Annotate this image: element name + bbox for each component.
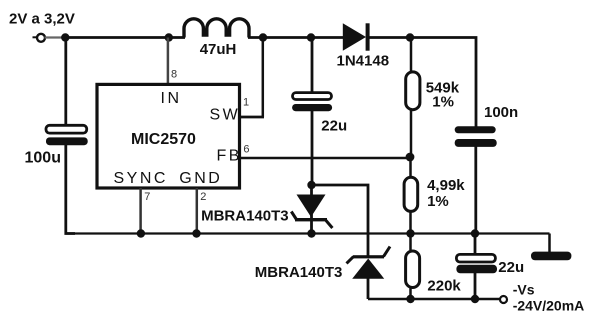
svg-text:1: 1 [243,97,249,109]
wire: inductor to diode [248,36,344,39]
node: D2 ground junction [307,229,315,237]
svg-text:MIC2570: MIC2570 [131,131,196,148]
resistor R3 220k [406,251,420,288]
svg-text:47uH: 47uH [200,41,237,58]
svg-text:22u: 22u [321,118,347,135]
node: input junction [61,33,69,41]
svg-text:FB: FB [217,148,242,165]
node: C2 top junction [307,33,315,41]
wire: R1 bottom to FB node [410,111,413,158]
input terminal [33,34,46,42]
diode D3 MBRA140T3 (schottky, cathode up) [347,247,391,300]
node: SW junction [259,33,267,41]
diode D2 MBRA140T3 (schottky, cathode down) [291,185,332,234]
resistor R2 4,99k [404,177,418,211]
wire: C4 bottom stub [474,273,477,300]
svg-text:2V a 3,2V: 2V a 3,2V [9,11,75,28]
ground rail [66,232,550,234]
capacitor C3 100n [455,126,497,147]
svg-text:-24V/20mA: -24V/20mA [513,298,585,314]
svg-text:220k: 220k [427,278,461,295]
svg-text:22u: 22u [498,259,524,276]
svg-text:100u: 100u [25,150,61,167]
node: R1 top junction [406,33,414,41]
node: C4 output junction [471,295,479,303]
svg-text:MBRA140T3: MBRA140T3 [255,264,343,281]
svg-text:7: 7 [144,191,150,203]
node: GND ground junction [192,229,200,237]
wire: pin 7 SYNC vertical [139,188,142,234]
wire: C1 bottom to ground rail [66,144,75,234]
svg-text:SYNC: SYNC [114,170,168,187]
svg-text:1%: 1% [427,193,449,210]
capacitor C2 22u [292,93,332,112]
wire: R3 bottom to output rail [409,289,412,300]
node: C3 ground junction [471,229,479,237]
svg-text:8: 8 [171,68,177,80]
wire: C4 top stub [474,234,477,256]
node: D2 top junction [307,181,315,189]
wire: R3 top stub [409,234,412,251]
wire: SW stub to IC [239,116,264,119]
svg-text:GND: GND [179,170,222,187]
svg-text:6: 6 [243,144,249,156]
wire: C1 branch vertical top [64,38,67,127]
wire: C2 vertical top [311,38,314,94]
wire: R2 top stub from FB node [409,157,412,177]
wire: FB pin horizontal [241,157,410,160]
IC U1 MIC2570 box [97,84,240,188]
svg-text:MBRA140T3: MBRA140T3 [201,208,289,225]
svg-text:IN: IN [161,90,182,107]
wire: diode to top right corner, down to C3 [368,38,476,128]
output terminal [500,296,507,303]
wire: pin 8 IN vertical [167,38,170,85]
inductor L1 47uH [184,19,249,38]
wire: terminal to inductor (top rail left) [45,36,67,38]
wire: D2 node to D3 branch [312,185,369,256]
capacitor C1 100u [46,125,88,145]
wire: R2 bottom to ground rail [409,213,412,234]
svg-text:1N4148: 1N4148 [337,53,390,70]
diode D1 1N4148 [343,23,370,50]
node: SYNC ground junction [137,229,145,237]
node: R3 output junction [406,295,414,303]
bottom output rail [368,298,500,301]
svg-text:SW: SW [210,107,241,124]
wire: C3 bottom to ground rail [474,146,477,234]
node: R2 ground junction [406,229,414,237]
ground symbol [531,234,571,261]
svg-text:-Vs: -Vs [513,282,535,298]
resistor R1 549k [406,72,420,110]
wire: C2 bottom to D2 node [311,110,314,185]
node: top junction at IN pin [165,33,173,41]
capacitor C4 22u (output) [456,254,497,273]
svg-text:4,99k: 4,99k [427,177,465,194]
wire: SW vertical [262,38,265,118]
svg-text:2: 2 [200,191,206,203]
wire: pin 2 GND vertical [196,188,199,234]
svg-text:1%: 1% [432,94,454,111]
node: FB divider junction [406,153,415,162]
svg-text:100n: 100n [484,104,518,121]
wire: R1 top stub [410,38,413,72]
